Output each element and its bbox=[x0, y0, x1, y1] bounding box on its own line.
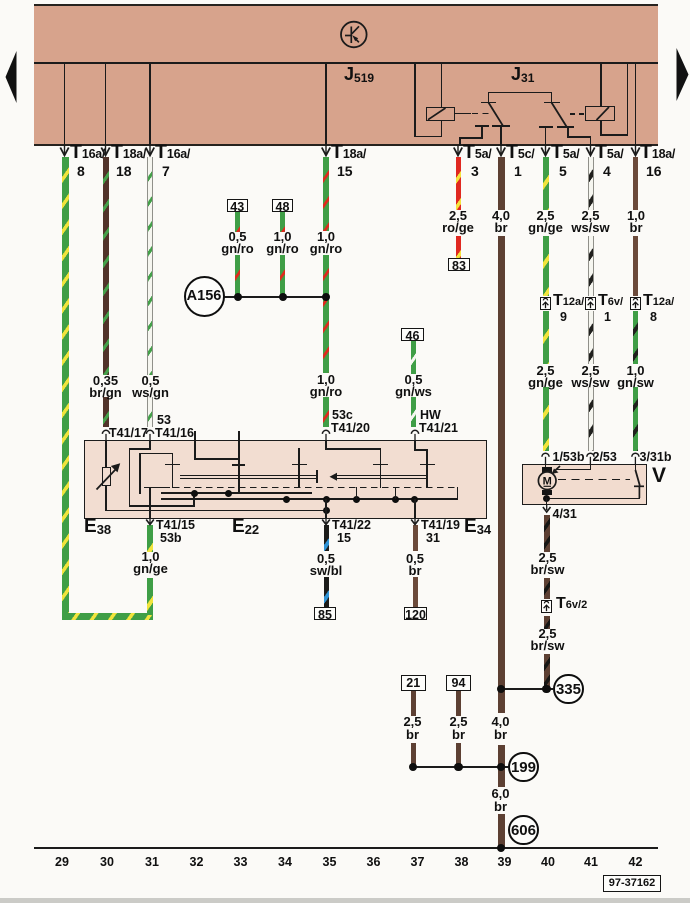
terminal T16a/8 bbox=[70, 146, 105, 161]
V-box pin bump x=590.4 bbox=[587, 453, 594, 464]
S1 wire to T5a/3 bbox=[481, 126, 483, 138]
terminal arrow x=458 bbox=[454, 146, 462, 156]
wire 94 br bbox=[456, 691, 461, 716]
junction line to 335 bbox=[501, 688, 553, 690]
label 0,5 sw/bl bbox=[299, 553, 354, 578]
label E34 bbox=[464, 521, 491, 535]
E-box interior: T41/17 feed bbox=[105, 440, 107, 467]
page arrow left bbox=[6, 51, 17, 103]
relay coil enclosure left (J31) bbox=[414, 62, 416, 137]
motor actuation arrow bbox=[552, 466, 561, 474]
diagram number box 97-37162 bbox=[603, 875, 661, 893]
connector box 21 bbox=[401, 675, 426, 691]
terminal arrow x=105.5 bbox=[101, 146, 109, 156]
label 0,5 ws/gn bbox=[123, 375, 178, 400]
connector T6v/2 icon bbox=[541, 600, 552, 613]
label 1,0 gn/ro (upper) bbox=[299, 231, 354, 256]
relay coil K2 (J31) bbox=[585, 106, 615, 121]
connector box 120 bbox=[404, 607, 427, 620]
label E22 bbox=[232, 521, 259, 535]
relay coil enclosure right (J31) bbox=[600, 62, 602, 107]
V interior: 4/31 drop bbox=[546, 498, 548, 505]
bottom current rail bbox=[34, 847, 658, 849]
E-box interior: T41/22 line bbox=[325, 499, 327, 518]
E-box interior: T41/19 line bbox=[414, 499, 416, 518]
wire T41/22 sw/bl bbox=[324, 525, 329, 551]
page arrow right bbox=[677, 48, 689, 101]
wire T5a/3 ro/ge bbox=[456, 157, 462, 210]
relay coil K1 diagonal bbox=[428, 108, 446, 120]
terminal arrow x=501 bbox=[497, 146, 505, 156]
V-box pin arrow 4/31 bbox=[543, 505, 551, 512]
label 0,35 br/gn bbox=[78, 375, 133, 400]
E-box interior: stub B bbox=[238, 431, 240, 494]
E-box interior: double bus left bbox=[180, 475, 318, 477]
label 0,5 gn/ro bbox=[210, 231, 265, 256]
wire corner gn/ge horizontal bbox=[62, 613, 154, 620]
E-box interior: double bus right bbox=[337, 475, 428, 477]
band divider line bbox=[34, 62, 658, 64]
connector box 94 bbox=[446, 675, 471, 691]
connector box 48 bbox=[272, 199, 293, 212]
V interior: bottom bus bbox=[546, 498, 640, 500]
pin label 1/53b bbox=[553, 451, 585, 464]
motor brush top bbox=[542, 467, 552, 473]
motor M symbol bbox=[538, 472, 556, 490]
label 1,0 gn/ro bbox=[255, 231, 310, 256]
wire T18a/18 br/gn bbox=[103, 157, 109, 375]
V interior: switch 3/31b bbox=[635, 464, 637, 471]
V interior: dashed link bbox=[558, 479, 630, 481]
wire br/sw below T6v/2 bbox=[544, 616, 550, 629]
label 4,0 br (lower) bbox=[478, 716, 523, 741]
V interior: feed 1/53b bbox=[545, 464, 547, 467]
terminal T5c/1 bbox=[506, 146, 534, 161]
connector box 85 bbox=[314, 607, 336, 620]
terminal arrow x=545.5 bbox=[541, 146, 549, 156]
wire T5c/1 br 4.0 bbox=[498, 157, 505, 210]
pin bump x=105.2 bbox=[102, 430, 109, 440]
label E38 bbox=[84, 521, 111, 535]
coil K1 dashed actuation bbox=[472, 113, 489, 115]
terminal T16a/7 bbox=[155, 146, 190, 161]
pin bump x=149.2 bbox=[146, 430, 153, 440]
junction line to 199 bbox=[413, 766, 508, 768]
E-box interior: stub A bbox=[194, 431, 196, 460]
junction dots bbox=[234, 293, 242, 301]
wire gn/sw below T12a/8 bbox=[633, 311, 638, 364]
ground connection 606 bbox=[508, 815, 538, 845]
label 1,0 gn/ro (lower) bbox=[299, 374, 354, 399]
label 1,0 gn/sw bbox=[608, 365, 663, 390]
wire 4/31 br/sw bbox=[544, 515, 550, 552]
label 2,5 br (94) bbox=[436, 716, 481, 741]
label 2,5 ws/sw (lower) bbox=[563, 365, 618, 390]
label 1,0 br bbox=[611, 210, 661, 235]
relay coil K2 diagonal bbox=[597, 107, 610, 120]
wire 43 gn/ro bbox=[235, 212, 240, 232]
wire T16a/8 gn/ge (long left) bbox=[62, 157, 69, 620]
pin bump x=325.2 bbox=[322, 430, 329, 440]
E-box interior: T41/20 feed bbox=[325, 440, 327, 449]
wire T5a/5 gn/ge bbox=[543, 157, 549, 210]
terminal arrow x=150 bbox=[146, 146, 154, 156]
ground connection 335 bbox=[553, 674, 583, 704]
potentiometer (illumination dimmer) bbox=[102, 467, 111, 486]
connector T12a/8 icon bbox=[630, 297, 641, 310]
label T6v/2 bbox=[556, 598, 587, 612]
E-box interior: contact c1 bbox=[298, 448, 300, 488]
terminal arrow x=64.5 bbox=[60, 146, 68, 156]
wire drop in band to T18a/16 bbox=[635, 62, 637, 146]
label 0,5 br bbox=[390, 553, 440, 578]
fuse/relay plate band J519-J31 bbox=[34, 4, 658, 146]
terminal arrow x=635.5 bbox=[631, 146, 639, 156]
V-box pin bump x=545.5 bbox=[542, 453, 549, 464]
E-box interior: short bus with dots bbox=[161, 492, 312, 494]
coil K2 dashed actuation bbox=[570, 113, 585, 115]
wire gn/ge to E38 T41/15 bbox=[147, 525, 153, 552]
pin label T41/19 / 31 bbox=[421, 519, 460, 532]
S2 lower contacts bbox=[539, 126, 554, 128]
connector T12a/9 icon bbox=[540, 297, 551, 310]
relay coil K1 (J31) bbox=[426, 107, 455, 121]
switch S1 blade bbox=[488, 102, 503, 126]
terminal T5a/4 bbox=[595, 146, 623, 161]
E-box interior: sub-unit rect bbox=[139, 453, 173, 455]
pin label T41/22 / 15 bbox=[332, 519, 371, 532]
wire drop in band to T16a/8 bbox=[64, 62, 66, 146]
S2 wire to T5a/5 bbox=[545, 127, 547, 146]
terminal arrow x=590.5 bbox=[586, 146, 594, 156]
terminal T18a/16 bbox=[640, 146, 675, 161]
wire drop in band to T16a/7 bbox=[149, 62, 151, 146]
wire 48 gn/ro bbox=[280, 212, 285, 232]
pin label 53c / T41/20 bbox=[332, 409, 353, 422]
label T12a/8 bbox=[643, 295, 674, 309]
connector box 46 bbox=[401, 328, 424, 341]
E-box interior: dashed bus bbox=[162, 487, 458, 489]
label 6,0 br bbox=[478, 788, 523, 813]
wire drop in band to T18a/15 bbox=[325, 62, 327, 146]
pin label T41/17 bbox=[109, 427, 148, 440]
label 2,5 ro/ge bbox=[433, 210, 483, 235]
terminal T5a/3 bbox=[463, 146, 491, 161]
label 2,5 br/sw (lower) bbox=[520, 628, 575, 653]
E-box interior: T41/15 line with bar bbox=[149, 487, 151, 518]
E-box interior: T41/21 feed bbox=[414, 440, 416, 450]
connector box 83 bbox=[448, 258, 470, 271]
pin label 3/31b bbox=[640, 451, 672, 464]
wire T16a/7 ws/gn bbox=[147, 157, 153, 375]
label 2,5 br/sw (upper) bbox=[520, 552, 575, 577]
label J519 bbox=[344, 68, 374, 83]
label 2,5 gn/ge (lower) bbox=[518, 365, 573, 390]
coil K1 lead bbox=[455, 113, 471, 115]
terminal arrow x=326 bbox=[322, 146, 330, 156]
label 4,0 br (top) bbox=[476, 210, 526, 235]
connector box 43 bbox=[227, 199, 248, 212]
wire drop in band to T18a/18 bbox=[105, 62, 107, 146]
wire T18a/16 br 1.0 bbox=[633, 157, 638, 210]
pin arrow below E-box x=415 bbox=[411, 518, 419, 525]
label 1,0 gn/ge bbox=[123, 551, 178, 576]
ground connection 199 bbox=[508, 752, 538, 782]
label 2,5 gn/ge (upper) bbox=[518, 210, 573, 235]
switch S1 common bar bbox=[488, 92, 553, 94]
wire 46 gn/ws bbox=[411, 341, 416, 374]
track numbers bbox=[50, 856, 74, 869]
wire 21 br bbox=[411, 691, 416, 716]
wire T41/19 br bbox=[413, 525, 418, 551]
pin label 53 / T41/16 bbox=[157, 414, 171, 427]
switch S2 pivot bbox=[551, 92, 553, 103]
terminal T18a/18 bbox=[111, 146, 146, 161]
pin label T41/15 / 53b bbox=[156, 519, 195, 532]
E-box interior: low line bbox=[105, 510, 327, 512]
label 2,5 br (21) bbox=[390, 716, 435, 741]
label 0,5 gn/ws bbox=[386, 374, 441, 399]
pin bump x=414.2 bbox=[411, 430, 418, 440]
V-box pin bump x=635.4 bbox=[632, 453, 639, 464]
V interior: feed 2/53 bbox=[590, 464, 592, 470]
connector T6v/1 icon bbox=[585, 297, 596, 310]
plus connection A156 bbox=[184, 276, 225, 317]
E-box interior: T41/16 feed path bbox=[149, 440, 151, 449]
wire T5a/4 ws/sw bbox=[588, 157, 594, 210]
label T12a/9 bbox=[553, 295, 584, 309]
terminal T18a/15 bbox=[331, 146, 366, 161]
pin label HW / T41/21 bbox=[420, 409, 441, 422]
switch S2 blade bbox=[551, 102, 566, 127]
S1 lower contacts bbox=[475, 125, 489, 127]
pin label 2/53 bbox=[593, 451, 617, 464]
S1 pivot contact bar bbox=[481, 102, 496, 104]
pin arrow below E-box x=326 bbox=[322, 518, 330, 525]
motor brush bottom bbox=[542, 490, 552, 496]
label T6v/1 bbox=[598, 295, 623, 309]
label V bbox=[652, 470, 666, 483]
V interior switch blade bbox=[634, 470, 644, 498]
label 2,5 ws/sw (upper) bbox=[563, 210, 618, 235]
terminal T5a/5 bbox=[551, 146, 579, 161]
S2 wire to T5a/4 bbox=[567, 127, 569, 137]
S1 wire to T5c/1 bbox=[500, 126, 502, 146]
label J31 bbox=[511, 68, 534, 83]
wire T18a/15 gn/ro bbox=[323, 157, 329, 231]
potentiometer arrow bbox=[97, 463, 121, 489]
scan artifact bar at page bottom bbox=[0, 898, 690, 903]
motor unit V box bbox=[522, 464, 647, 505]
node A156 junction line bbox=[224, 296, 326, 298]
E-box interior: long bus with dots bbox=[161, 498, 458, 500]
pin arrow below E-box x=150 bbox=[146, 518, 154, 525]
pin label 4/31 bbox=[553, 508, 577, 521]
control unit box E38/E22/E34 bbox=[84, 440, 487, 519]
bus connection symbol K bbox=[341, 22, 367, 48]
